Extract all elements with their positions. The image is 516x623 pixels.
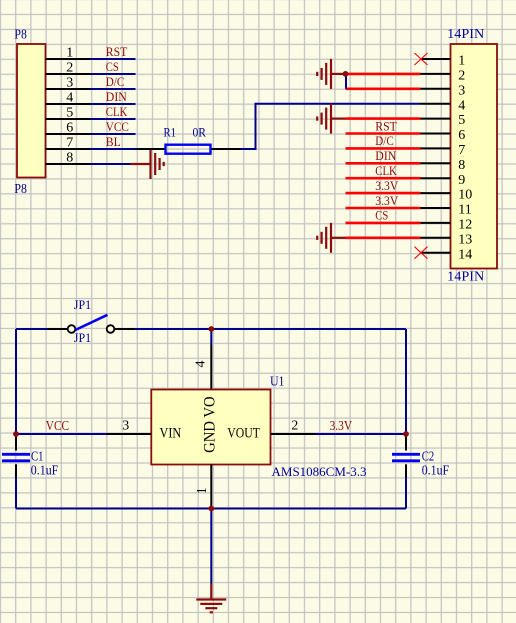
wire 14PIN pin 3	[346, 88, 421, 91]
U1 pin 3	[107, 418, 152, 434]
14PIN pin 8	[421, 158, 466, 173]
14PIN pin 9	[421, 173, 466, 188]
svg-text:3: 3	[66, 75, 73, 90]
jumper JP1	[48, 315, 135, 333]
connector 14PIN	[447, 26, 497, 283]
wire right rail upper	[405, 329, 407, 434]
svg-text:VIN: VIN	[160, 426, 182, 442]
no-ERC marker at 14PIN pin 14	[415, 247, 428, 259]
connector P8	[14, 26, 45, 196]
14PIN pin 7	[421, 143, 466, 158]
wire 14PIN pin 11	[346, 207, 421, 210]
svg-text:2: 2	[66, 60, 73, 75]
svg-text:5: 5	[66, 105, 73, 120]
wire from P8 pin 4	[91, 103, 136, 105]
svg-text:CLK: CLK	[106, 105, 128, 119]
svg-text:3.3V: 3.3V	[375, 179, 398, 193]
wire 3.3V net	[316, 433, 407, 435]
svg-text:13: 13	[458, 232, 472, 247]
svg-text:0.1uF: 0.1uF	[31, 463, 59, 478]
svg-text:3: 3	[122, 418, 129, 433]
wire from P8 pin 7	[91, 148, 136, 150]
svg-text:1: 1	[66, 45, 73, 60]
wire 14PIN pin 13	[346, 237, 421, 240]
P8 pin 8	[46, 150, 91, 165]
svg-text:8: 8	[458, 158, 465, 173]
wire 14PIN pin 10	[346, 192, 421, 195]
wire 14PIN pin 7	[346, 147, 421, 150]
wire to bottom ground	[210, 509, 212, 599]
junction C2	[403, 431, 409, 437]
svg-text:8: 8	[66, 150, 73, 165]
svg-text:5: 5	[458, 113, 465, 128]
svg-text:14: 14	[458, 247, 472, 262]
svg-text:P8: P8	[14, 26, 27, 41]
14PIN pin 11	[421, 203, 472, 218]
14PIN pin 14	[421, 247, 473, 262]
U1 pin 1	[195, 465, 211, 509]
P8 pin 7	[46, 135, 91, 150]
wire pin3 to pin2 vertical	[345, 74, 347, 89]
P8 pin 4	[46, 90, 91, 105]
ground at 14PIN pin 13	[317, 223, 345, 253]
wire from P8 pin 5	[91, 118, 136, 120]
wire 14PIN pin 8	[346, 162, 421, 165]
P8 pin 5	[46, 105, 91, 120]
14PIN pin 4	[421, 98, 466, 113]
wire 14PIN pin 6	[346, 132, 421, 135]
wire top rail right segment	[135, 328, 407, 330]
U1 pin 4	[194, 329, 212, 390]
wire VCC net	[16, 433, 107, 435]
wire R1 to 14PIN pin 4	[241, 104, 421, 149]
14PIN pin 10	[421, 188, 473, 203]
svg-text:DIN: DIN	[375, 149, 396, 163]
svg-text:12: 12	[458, 218, 472, 233]
svg-text:6: 6	[66, 120, 73, 135]
svg-text:AMS1086CM-3.3: AMS1086CM-3.3	[272, 464, 367, 479]
svg-text:CS: CS	[375, 209, 388, 223]
14PIN pin 2	[421, 69, 466, 84]
svg-text:JP1: JP1	[74, 298, 91, 312]
svg-text:4: 4	[194, 361, 209, 368]
svg-text:3.3V: 3.3V	[375, 194, 398, 208]
wire bottom rail	[16, 508, 406, 510]
capacitor C1	[2, 434, 30, 509]
svg-text:CS: CS	[106, 60, 119, 74]
svg-text:0R: 0R	[193, 125, 207, 139]
14PIN pin 12	[421, 218, 473, 233]
junction bottom rail / U1 pin 1	[208, 506, 214, 512]
svg-text:7: 7	[66, 135, 73, 150]
14PIN pin 5	[421, 113, 466, 128]
svg-text:3.3V: 3.3V	[330, 419, 353, 434]
14PIN pin 1	[421, 54, 466, 69]
P8 pin 6	[46, 120, 91, 135]
svg-text:VOUT: VOUT	[227, 426, 260, 442]
no-ERC marker at 14PIN pin 1	[415, 53, 428, 65]
svg-text:CLK: CLK	[375, 164, 397, 178]
svg-text:RST: RST	[375, 119, 397, 133]
wire from P8 pin 2	[91, 73, 136, 75]
regulator U1	[151, 390, 270, 465]
junction at pin 2 wire	[343, 71, 349, 77]
junction top rail / U1 pin 4	[208, 326, 214, 332]
wire from P8 pin 6	[91, 133, 136, 135]
14PIN pin 6	[421, 128, 466, 143]
U1 pin 2	[271, 419, 316, 434]
svg-text:4: 4	[66, 90, 73, 105]
svg-text:0.1uF: 0.1uF	[422, 463, 450, 478]
svg-text:VCC: VCC	[106, 120, 129, 134]
ground at P8 pin 8	[131, 149, 164, 179]
wire from P8 pin 1	[91, 58, 136, 60]
wire top rail left segment	[16, 328, 48, 330]
svg-text:R1: R1	[164, 126, 177, 140]
capacitor C2	[392, 434, 420, 509]
ground (bottom)	[196, 600, 226, 613]
14PIN pin 13	[421, 232, 473, 247]
wire 14PIN pin 12	[346, 222, 421, 225]
svg-text:4: 4	[458, 98, 465, 113]
wire from P8 pin 3	[91, 88, 136, 90]
resistor R1	[136, 145, 241, 154]
svg-text:D/C: D/C	[106, 75, 125, 89]
wire from P8 pin 8	[91, 163, 136, 165]
svg-text:RST: RST	[106, 45, 128, 59]
svg-text:1: 1	[458, 54, 465, 69]
svg-text:DIN: DIN	[106, 90, 127, 104]
14PIN pin 3	[421, 83, 466, 98]
svg-text:P8: P8	[14, 181, 27, 196]
junction C1	[13, 431, 19, 437]
P8 pin 3	[46, 75, 91, 90]
wire left rail	[15, 329, 17, 434]
svg-text:D/C: D/C	[375, 134, 394, 148]
svg-text:6: 6	[458, 128, 465, 143]
svg-text:7: 7	[458, 143, 465, 158]
svg-text:14PIN: 14PIN	[447, 26, 484, 41]
svg-text:VCC: VCC	[46, 419, 69, 434]
svg-text:11: 11	[458, 203, 471, 218]
svg-text:BL: BL	[106, 135, 121, 149]
svg-text:1: 1	[195, 487, 210, 494]
wire 14PIN pin 5	[346, 117, 421, 120]
wire 14PIN pin 9	[346, 177, 421, 180]
svg-text:GND VO: GND VO	[201, 396, 218, 453]
svg-text:JP1: JP1	[74, 331, 91, 345]
ground at 14PIN pin 5	[317, 104, 345, 134]
svg-text:2: 2	[291, 419, 298, 434]
svg-text:9: 9	[458, 173, 465, 188]
svg-text:3: 3	[458, 83, 465, 98]
P8 pin 2	[46, 60, 91, 75]
ground at 14PIN pin 2	[317, 59, 345, 89]
P8 pin 1	[46, 45, 91, 60]
wire 14PIN pin 2	[346, 73, 421, 76]
svg-text:10: 10	[458, 188, 472, 203]
svg-text:U1: U1	[270, 374, 285, 389]
svg-text:14PIN: 14PIN	[447, 269, 484, 284]
svg-text:2: 2	[458, 69, 465, 84]
